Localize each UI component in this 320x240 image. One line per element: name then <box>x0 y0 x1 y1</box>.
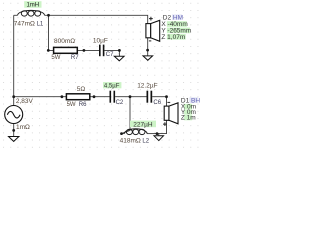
resistor R6 <box>66 94 89 100</box>
resistor R7 <box>54 47 78 53</box>
wire from junction down to R7 <box>48 15 50 50</box>
D2 plus <box>149 17 153 21</box>
svg-text:5W: 5W <box>51 55 60 61</box>
svg-text:1mH: 1mH <box>26 3 39 9</box>
node C6-D1 junction <box>165 95 168 98</box>
node source top <box>12 95 15 98</box>
svg-text:R7: R7 <box>71 55 79 61</box>
label Z 1m (green) <box>181 115 196 122</box>
label Y -265mm (green) <box>161 28 191 35</box>
node source bottom <box>12 129 15 132</box>
node L2 left <box>120 132 123 135</box>
node R7 right <box>83 49 86 52</box>
label X -40mm (green) <box>161 21 187 28</box>
wire D2 bottom to ground <box>147 38 149 56</box>
svg-text:12.2µF: 12.2µF <box>137 83 157 90</box>
svg-text:2,83V: 2,83V <box>16 98 34 105</box>
speaker D1 <box>164 103 178 124</box>
ground source <box>9 137 19 142</box>
capacitor C7 <box>99 45 104 57</box>
node C7 ground <box>118 49 121 52</box>
svg-text:C2: C2 <box>116 100 124 106</box>
label D1 BH <box>181 97 200 104</box>
node C2-C6 junction <box>129 95 132 98</box>
D1 plus <box>163 122 167 126</box>
wire C2 to C6 <box>115 96 146 98</box>
svg-text:C7: C7 <box>106 52 114 58</box>
label D2 HM <box>163 14 183 21</box>
wire L2 left lead <box>122 133 125 135</box>
svg-text:418mΩ L2: 418mΩ L2 <box>120 138 150 145</box>
D2 minus <box>149 40 151 42</box>
svg-text:C6: C6 <box>153 100 161 106</box>
wire L2 right lead <box>147 133 159 135</box>
wire C7 to ground stub <box>104 50 119 56</box>
inductor L1 coil <box>18 10 45 16</box>
svg-text:4,5µF: 4,5µF <box>104 83 120 89</box>
svg-text:1mΩ: 1mΩ <box>16 124 30 131</box>
node R6 right <box>93 95 96 98</box>
wire source bottom to ground <box>13 123 15 136</box>
node D2 ground <box>146 49 149 52</box>
wire C6 to D1 corner <box>152 97 166 106</box>
wire top from L1 to D2 corner <box>45 15 148 23</box>
wire L2 drop from rail junction with diagonal <box>122 97 131 134</box>
D1 minus <box>167 101 170 103</box>
inductor L2 coil <box>124 129 147 135</box>
capacitor C6 <box>147 91 153 103</box>
capacitor C2 <box>110 91 116 103</box>
node after L1 <box>47 14 50 17</box>
ground L2 <box>154 136 164 141</box>
label X 0m (green) <box>181 103 196 110</box>
label 227uH (green) <box>130 121 156 129</box>
wire L1 left lead <box>14 14 18 16</box>
label Z 1,07m (green) <box>161 34 185 41</box>
svg-text:227µH: 227µH <box>133 121 153 128</box>
svg-text:5W: 5W <box>67 102 76 108</box>
svg-text:747mΩ L1: 747mΩ L1 <box>14 20 44 27</box>
wire R7 leads <box>48 49 99 51</box>
node R7 left <box>47 49 50 52</box>
svg-text:800mΩ: 800mΩ <box>54 38 75 45</box>
junction dots <box>12 14 168 135</box>
svg-text:5Ω: 5Ω <box>77 86 86 93</box>
svg-text:R6: R6 <box>79 102 87 108</box>
svg-text:10µF: 10µF <box>93 38 108 45</box>
svg-text:Z 1,07m: Z 1,07m <box>161 34 185 41</box>
label Y 0m (green) <box>181 109 196 116</box>
speaker D2 <box>146 20 160 41</box>
wire left vertical from top corner to source <box>13 15 15 105</box>
node L2 right <box>156 132 159 135</box>
node R6 left <box>61 95 64 98</box>
wire D1 bottom to L2 node <box>156 120 167 133</box>
label 1mH (green) <box>24 1 41 8</box>
svg-text:Z 1m: Z 1m <box>181 115 196 122</box>
source V <box>5 106 23 124</box>
wire L2 ground stub <box>158 134 160 136</box>
ground C7 <box>114 56 124 61</box>
wire bottom rail <box>14 96 110 98</box>
ground D2 <box>143 56 153 60</box>
label 4,5uF (green) <box>103 82 121 89</box>
